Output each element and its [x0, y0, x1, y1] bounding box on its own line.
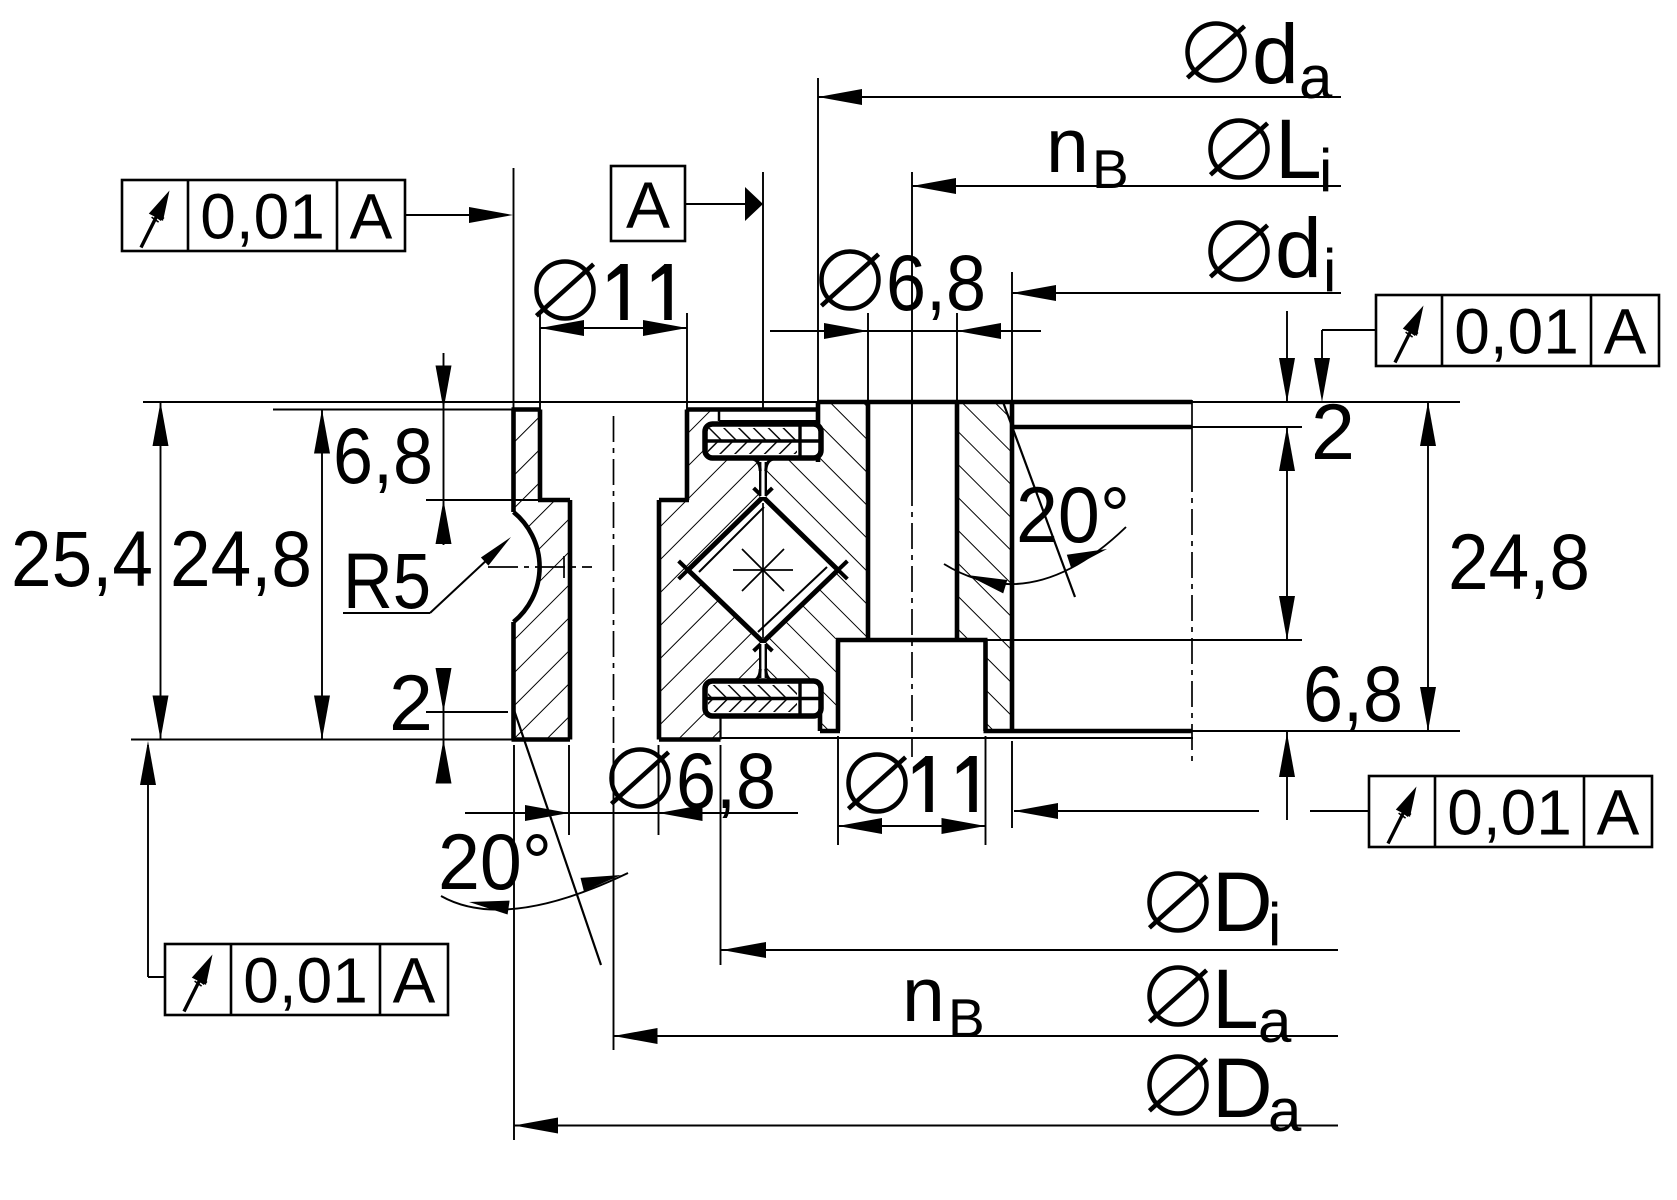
extension ⌀6,8 bottom left — [568, 745, 570, 835]
feature control frame top-right (runout 0,01 A) — [1376, 295, 1659, 366]
extension ⌀d_i — [1011, 272, 1013, 402]
feature control frame bottom-right (runout 0,01 A) — [1369, 776, 1652, 847]
svg-text:n: n — [1046, 103, 1089, 189]
svg-text:24,8: 24,8 — [1448, 517, 1590, 606]
extension ⌀L_a — [613, 748, 615, 1050]
20° contact line top — [1003, 402, 1075, 597]
dim ⌀11 top — [540, 327, 687, 329]
svg-text:20°: 20° — [1016, 470, 1130, 559]
svg-text:D: D — [1212, 855, 1273, 949]
dim text ⌀6,8 bottom — [612, 750, 669, 807]
extension line 2mm step right — [1192, 426, 1302, 428]
dim text ⌀11 top — [537, 262, 594, 319]
svg-text:0,01: 0,01 — [1454, 296, 1579, 368]
svg-text:B: B — [1092, 138, 1129, 200]
svg-text:A: A — [350, 181, 393, 253]
dim text ⌀6,8 top — [822, 252, 879, 309]
svg-text:2: 2 — [389, 658, 433, 747]
svg-text:2: 2 — [1311, 387, 1355, 476]
extension x=1012 lower (runout leader) — [1011, 741, 1013, 828]
svg-text:A: A — [1597, 777, 1640, 849]
extension datum A target — [762, 172, 764, 410]
roller (crossed roller section) — [688, 497, 838, 642]
svg-text:i: i — [1268, 891, 1281, 958]
feature control frame bottom-left (runout 0,01 A) — [165, 944, 448, 1015]
dim ⌀6,8 top — [770, 330, 1041, 332]
label ⌀D_i — [1150, 874, 1207, 931]
dim ⌀11 bottom — [838, 825, 986, 827]
extension line counterbore face right — [986, 639, 1303, 641]
dim text ⌀11 bottom — [849, 755, 906, 812]
svg-text:L: L — [1275, 102, 1322, 196]
dim ⌀d_i — [1012, 292, 1341, 294]
dim 25,4 — [160, 402, 162, 740]
dim n_B / ⌀L_i — [912, 185, 1341, 187]
counterbore hole left ring — [540, 407, 687, 501]
inner ring section (right, hatched) — [766, 402, 1012, 731]
label ⌀D_a — [1150, 1057, 1207, 1114]
svg-text:A: A — [393, 945, 436, 1017]
dim 2 right / 6,8 right shared shaft — [1286, 311, 1288, 402]
svg-text:L: L — [1212, 952, 1259, 1046]
outer ring outline — [512, 407, 541, 412]
seal groove step left — [718, 410, 721, 422]
counterbore left walls — [538, 410, 543, 501]
dim 24,8 right — [1427, 402, 1429, 731]
dim ⌀D_a — [514, 1125, 1338, 1127]
gap slot above roller — [760, 459, 766, 497]
20° arc bottom — [441, 873, 628, 910]
hole right walls — [866, 402, 871, 640]
dim ⌀6,8 bottom — [465, 812, 798, 814]
dim ⌀d_a — [818, 96, 1341, 98]
dim 6,8 left — [443, 353, 445, 545]
lower seal — [705, 681, 821, 716]
extension ⌀d_a — [817, 78, 819, 402]
svg-text:R5: R5 — [343, 536, 431, 625]
extension line bottom continuation right — [721, 737, 1194, 739]
svg-text:6,8: 6,8 — [676, 736, 776, 825]
svg-text:a: a — [1268, 1077, 1302, 1144]
svg-text:0,01: 0,01 — [200, 181, 325, 253]
dim 24,8 left — [321, 410, 323, 740]
extension ⌀11 top — [539, 313, 541, 410]
label ⌀L_i — [1211, 121, 1268, 178]
20° contact line bottom — [514, 710, 601, 965]
centerline right ring recess — [1191, 400, 1193, 466]
feature control frame top-left (runout 0,01 A) — [122, 180, 405, 251]
svg-text:a: a — [1299, 44, 1333, 111]
dim 2 left — [443, 668, 445, 775]
svg-text:0,01: 0,01 — [243, 945, 368, 1017]
extension ⌀6,8 top — [867, 313, 869, 402]
centerline right bolt hole — [911, 480, 913, 757]
svg-text:n: n — [902, 952, 945, 1038]
label ⌀d_a — [1188, 24, 1245, 81]
extension line right top face — [1192, 401, 1460, 403]
extension line top face right ring (for 25,4 / datum) — [143, 401, 818, 403]
svg-text:i: i — [1323, 237, 1336, 304]
outer ring section (left, hatched) — [514, 410, 767, 740]
roller end chords — [699, 507, 764, 572]
svg-text:B: B — [948, 987, 985, 1049]
extension ⌀D_i — [720, 745, 722, 965]
20° arc top — [944, 527, 1126, 584]
svg-text:20°: 20° — [438, 817, 552, 906]
extension line counterbore floor left — [426, 499, 540, 501]
svg-text:A: A — [1604, 296, 1647, 368]
roller centre mark — [762, 503, 764, 638]
svg-text:d: d — [1252, 7, 1299, 101]
inner ring outline — [818, 400, 1192, 405]
upper seal — [705, 424, 821, 458]
centerline R5 recess — [488, 566, 592, 568]
R5 recess notch — [514, 512, 540, 622]
through hole right ring — [868, 402, 957, 640]
datum A flag — [611, 166, 685, 241]
svg-text:6,8: 6,8 — [886, 238, 986, 327]
raceway surfaces (45°) — [679, 488, 773, 579]
leader bottom-right runout frame — [1014, 810, 1259, 812]
centerline left bolt hole — [613, 416, 615, 748]
extension line top face left ring (for 24,8) — [273, 409, 514, 411]
svg-text:0,01: 0,01 — [1447, 777, 1572, 849]
hole left walls — [568, 500, 573, 740]
leader to outer ring OD — [405, 214, 506, 216]
extension runout left target — [513, 168, 515, 410]
counterbore right walls — [836, 640, 841, 731]
extension ⌀D_a — [513, 745, 515, 1140]
svg-text:D: D — [1212, 1041, 1273, 1135]
extension n_B top / hole centre — [911, 172, 913, 480]
svg-text:i: i — [1319, 137, 1332, 204]
extension line bottom face right — [1192, 730, 1460, 732]
dim ⌀L_a — [614, 1035, 1339, 1037]
svg-text:24,8: 24,8 — [170, 514, 312, 603]
svg-text:6,8: 6,8 — [1303, 649, 1403, 738]
svg-text:6,8: 6,8 — [333, 411, 433, 500]
label ⌀d_i — [1211, 223, 1268, 280]
dim ⌀D_i — [721, 949, 1339, 951]
extension ⌀11 bottom right — [837, 736, 839, 845]
extension line 2mm left — [426, 711, 508, 713]
label ⌀L_a — [1150, 968, 1207, 1025]
svg-text:25,4: 25,4 — [11, 514, 153, 603]
counterbore hole right ring — [838, 640, 986, 731]
svg-text:A: A — [626, 168, 670, 242]
through hole left ring — [570, 500, 659, 740]
extension line bottom left — [131, 739, 514, 741]
svg-text:d: d — [1275, 201, 1322, 295]
gap slot below roller — [760, 643, 766, 680]
